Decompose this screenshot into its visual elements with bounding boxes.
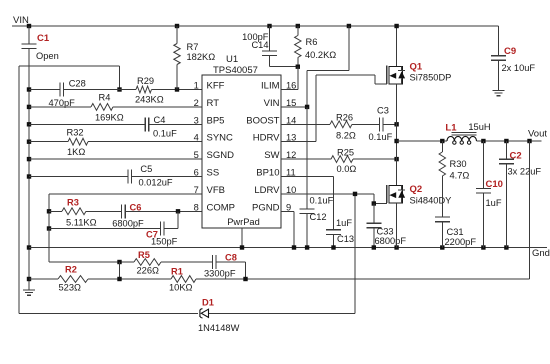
- svg-text:C1: C1: [37, 33, 50, 44]
- junction C2 on output row: [504, 139, 508, 143]
- junction SW to output row: [394, 139, 398, 143]
- resistor R2: [58, 276, 88, 283]
- capacitor C10: [482, 141, 484, 188]
- resistor R26: [330, 121, 352, 128]
- svg-text:BP10: BP10: [256, 168, 279, 179]
- wire left signal-ground bus: [28, 90, 30, 290]
- junction C2 rail: [504, 245, 508, 249]
- resistor R1: [171, 276, 196, 283]
- wire FB node vertical: [48, 194, 50, 262]
- svg-text:6800pF: 6800pF: [375, 236, 407, 246]
- svg-text:40.2KΩ: 40.2KΩ: [305, 50, 336, 60]
- wire SS row pin 6: [29, 176, 128, 178]
- svg-text:8.2Ω: 8.2Ω: [336, 131, 356, 141]
- wire feedback drop to R1 row: [529, 141, 531, 279]
- svg-text:0.1uF: 0.1uF: [153, 129, 177, 139]
- wire D1 to LDRV riser: [354, 194, 356, 313]
- svg-text:3x 22uF: 3x 22uF: [508, 167, 542, 177]
- resistor R30 snubber: [441, 141, 443, 152]
- svg-text:2200pF: 2200pF: [445, 237, 477, 247]
- svg-text:C33: C33: [377, 227, 394, 237]
- svg-text:R25: R25: [337, 148, 354, 158]
- svg-text:5.11KΩ: 5.11KΩ: [66, 218, 97, 228]
- wire Q2 source to rail: [396, 203, 398, 247]
- svg-text:D1: D1: [202, 298, 214, 308]
- junction R29/R7 at KFF: [175, 87, 179, 91]
- junction C33 hang point: [372, 201, 376, 205]
- svg-text:3300pF: 3300pF: [204, 269, 236, 279]
- svg-text:LDRV: LDRV: [254, 185, 280, 196]
- svg-text:10KΩ: 10KΩ: [169, 283, 193, 293]
- svg-text:0.012uF: 0.012uF: [139, 178, 173, 188]
- wire VIN feed to pin 15: [348, 26, 350, 70]
- svg-text:R7: R7: [187, 42, 199, 52]
- svg-text:Q2: Q2: [410, 184, 423, 195]
- svg-text:150pF: 150pF: [151, 237, 178, 247]
- resistor R3: [62, 208, 86, 215]
- wire PwrPad to ground rail: [241, 228, 243, 247]
- svg-text:BP5: BP5: [207, 115, 225, 126]
- wire KFF row pin 1: [29, 89, 60, 91]
- Q2 body diode: [398, 191, 405, 198]
- junction R25 to SW column: [394, 157, 398, 161]
- svg-text:PGND: PGND: [252, 202, 280, 213]
- junction C31 rail: [440, 245, 444, 249]
- junction Vout feedback tap: [527, 139, 531, 143]
- svg-text:R4: R4: [99, 93, 111, 103]
- ground symbol bottom-left: [23, 289, 35, 291]
- svg-text:169KΩ: 169KΩ: [95, 113, 124, 123]
- wire SGND row pin 5: [29, 158, 202, 160]
- wire C14 to ILIM: [270, 66, 298, 68]
- wire ILIM to pin 16: [297, 67, 299, 90]
- wire SW row pin 12: [281, 158, 331, 160]
- junction C3 to SW column: [394, 122, 398, 126]
- svg-text:R29: R29: [137, 76, 154, 86]
- svg-text:226Ω: 226Ω: [137, 266, 160, 276]
- junction bus row6: [27, 174, 31, 178]
- junction R5 row mid: [117, 260, 121, 264]
- svg-text:KFF: KFF: [207, 81, 225, 92]
- wire PGND pin 9 to rail: [281, 210, 294, 212]
- capacitor C6: [121, 204, 123, 218]
- junction bus row3: [27, 122, 31, 126]
- capacitor C31: [435, 216, 450, 218]
- junction R30 on output row: [440, 139, 444, 143]
- svg-text:1: 1: [194, 81, 199, 91]
- svg-text:C3: C3: [377, 106, 389, 116]
- svg-text:6800pF: 6800pF: [112, 219, 144, 229]
- svg-text:ILIM: ILIM: [261, 81, 280, 92]
- wire power ground rail: [29, 247, 547, 249]
- resistor R29: [136, 86, 152, 93]
- Q1 channel arrow: [389, 73, 396, 79]
- svg-text:C31: C31: [447, 227, 464, 237]
- inductor L1: [447, 136, 476, 141]
- junction LDRV D1 riser: [353, 192, 357, 196]
- svg-text:7: 7: [194, 185, 199, 195]
- junction divider: [117, 277, 121, 281]
- resistor R32: [68, 138, 88, 145]
- capacitor C2: [505, 141, 507, 159]
- capacitor C28: [59, 83, 61, 97]
- wire VIN top rail: [12, 25, 499, 27]
- svg-text:2x 10uF: 2x 10uF: [502, 63, 536, 73]
- capacitor C13: [333, 177, 335, 230]
- transistor Q1 body: [389, 66, 402, 84]
- junction C10 rail: [481, 245, 485, 249]
- svg-text:R5: R5: [138, 250, 150, 260]
- svg-text:R26: R26: [336, 113, 353, 123]
- capacitor C1: [28, 26, 30, 44]
- svg-text:TPS40057: TPS40057: [213, 65, 258, 76]
- capacitor C3: [378, 117, 380, 131]
- svg-text:HDRV: HDRV: [253, 133, 280, 144]
- junction PwrPad rail: [240, 245, 244, 249]
- svg-text:Si4840DY: Si4840DY: [410, 196, 452, 206]
- svg-text:0.0Ω: 0.0Ω: [337, 164, 357, 174]
- svg-text:5: 5: [194, 150, 199, 160]
- wire RT row pin 2: [29, 106, 91, 108]
- svg-text:C13: C13: [337, 234, 354, 244]
- svg-text:1KΩ: 1KΩ: [67, 147, 85, 157]
- svg-text:C5: C5: [140, 164, 152, 174]
- svg-text:COMP: COMP: [207, 202, 236, 213]
- junction Q2 source rail: [394, 245, 398, 249]
- wire output row SW to Vout: [397, 140, 447, 142]
- svg-text:3: 3: [194, 115, 199, 125]
- svg-text:523Ω: 523Ω: [59, 283, 82, 293]
- svg-text:VFB: VFB: [207, 185, 225, 196]
- wire BP5 row pin 3: [29, 123, 145, 125]
- junction C12 rail: [305, 245, 309, 249]
- svg-text:Open: Open: [36, 51, 59, 61]
- svg-text:C10: C10: [486, 179, 503, 190]
- wire BOOST row pin 14: [281, 123, 330, 125]
- svg-text:0.1uF: 0.1uF: [369, 132, 393, 142]
- svg-text:C14: C14: [251, 40, 268, 50]
- wire C7 branch: [49, 228, 160, 230]
- svg-text:C2: C2: [510, 151, 522, 162]
- svg-text:L1: L1: [445, 122, 457, 133]
- svg-text:C4: C4: [154, 115, 166, 125]
- svg-text:SS: SS: [207, 168, 220, 179]
- capacitor C7: [159, 222, 161, 236]
- wire R5 row: [48, 229, 50, 263]
- svg-text:4: 4: [194, 133, 199, 143]
- svg-text:BOOST: BOOST: [246, 115, 279, 126]
- junction bus gnd rail: [27, 245, 31, 249]
- ground symbol under C9: [493, 90, 505, 92]
- svg-text:0.1uF: 0.1uF: [310, 196, 334, 206]
- svg-text:U1: U1: [226, 54, 238, 65]
- svg-text:RT: RT: [207, 98, 220, 109]
- svg-text:182KΩ: 182KΩ: [187, 52, 216, 62]
- svg-text:C8: C8: [225, 253, 237, 263]
- wire SW column: [396, 84, 398, 186]
- Q2 channel arrow: [389, 192, 396, 198]
- svg-text:C6: C6: [130, 203, 142, 213]
- wire LDRV step to Q2 gate: [373, 194, 375, 204]
- junction C1 on VIN rail: [27, 24, 31, 28]
- junction C14 on VIN rail: [267, 24, 271, 28]
- diode D1: [201, 309, 208, 317]
- svg-text:VIN: VIN: [13, 15, 29, 26]
- svg-text:C12: C12: [310, 212, 327, 222]
- svg-text:243KΩ: 243KΩ: [135, 95, 164, 105]
- junction R7 on VIN rail: [175, 24, 179, 28]
- Q1 gate bar: [386, 66, 388, 84]
- svg-text:2: 2: [194, 98, 199, 108]
- resistor R4: [91, 104, 113, 111]
- junction bus row1: [27, 87, 31, 91]
- junction C10 on output row: [481, 139, 485, 143]
- transistor Q2 body: [389, 186, 402, 204]
- capacitor C9 with ground: [498, 26, 500, 56]
- junction VIN pin node: [305, 105, 309, 109]
- resistor R6: [297, 26, 299, 36]
- svg-text:SGND: SGND: [207, 150, 235, 161]
- svg-text:1uF: 1uF: [336, 218, 352, 228]
- wire BP10 row pin 11: [281, 176, 334, 178]
- svg-text:4.7Ω: 4.7Ω: [450, 171, 470, 181]
- junction Q1 drain on rail: [394, 24, 398, 28]
- resistor R25: [331, 156, 353, 163]
- junction VIN feed on rail: [347, 24, 351, 28]
- svg-text:1uF: 1uF: [486, 198, 502, 208]
- junction FB C7 branch: [47, 226, 51, 230]
- wire outer loop drop to KFF: [119, 66, 121, 90]
- svg-text:1N4148W: 1N4148W: [198, 323, 240, 333]
- junction FB R3 branch: [47, 209, 51, 213]
- junction C33 rail: [372, 245, 376, 249]
- wire VFB row pin 7: [49, 193, 202, 195]
- svg-text:R6: R6: [306, 37, 318, 47]
- op-amp U1 TPS40057 controller box: [202, 75, 281, 228]
- svg-text:C28: C28: [69, 79, 86, 89]
- capacitor C14: [269, 26, 271, 51]
- svg-text:R2: R2: [65, 265, 77, 275]
- wire outer loop top: [19, 65, 120, 67]
- wire divider link: [119, 262, 121, 279]
- svg-text:R30: R30: [450, 159, 467, 169]
- junction C13 rail: [331, 245, 335, 249]
- svg-text:6: 6: [194, 168, 199, 178]
- junction bus row4: [27, 140, 31, 144]
- junction PGND rail: [292, 245, 296, 249]
- junction C8 to R1 row: [243, 277, 247, 281]
- transistor Q1 drain wire: [396, 26, 398, 66]
- svg-text:SW: SW: [264, 150, 279, 161]
- junction bus R2 row: [27, 277, 31, 281]
- svg-text:SYNC: SYNC: [207, 133, 234, 144]
- svg-text:Q1: Q1: [410, 62, 423, 73]
- wire COMP row pin 8: [49, 210, 62, 212]
- svg-text:Gnd: Gnd: [532, 248, 550, 259]
- junction bus row2: [27, 105, 31, 109]
- Q1 body diode: [398, 71, 405, 78]
- svg-text:VIN: VIN: [264, 98, 280, 109]
- junction bus row5: [27, 157, 31, 161]
- junction ILIM node: [296, 65, 300, 69]
- wire SYNC row pin 4: [29, 141, 68, 143]
- svg-text:8: 8: [194, 202, 199, 212]
- svg-text:R3: R3: [67, 198, 79, 208]
- svg-text:15uH: 15uH: [468, 122, 490, 132]
- capacitor C4: [144, 117, 146, 131]
- junction COMP C7 rejoin: [176, 209, 180, 213]
- capacitor C33: [373, 204, 375, 224]
- wire LDRV row pin 10: [281, 193, 374, 195]
- svg-text:Si7850DP: Si7850DP: [410, 73, 452, 83]
- wire D1 row: [19, 312, 198, 314]
- wire HDRV to Q1 gate: [281, 141, 316, 143]
- resistor R7: [176, 26, 178, 44]
- capacitor C5: [127, 170, 129, 184]
- svg-text:R32: R32: [67, 128, 84, 138]
- resistor R5: [134, 259, 161, 266]
- wire R2 R1 row: [29, 278, 58, 280]
- svg-text:Vout: Vout: [528, 129, 547, 140]
- junction KFF C28/R29: [117, 87, 121, 91]
- junction R6 on VIN rail: [296, 24, 300, 28]
- Q2 gate bar: [386, 185, 388, 203]
- svg-text:R1: R1: [171, 267, 183, 277]
- svg-text:C9: C9: [504, 46, 516, 57]
- capacitor C8: [212, 255, 214, 269]
- svg-text:PwrPad: PwrPad: [227, 217, 260, 227]
- L1 core lines: [452, 131, 477, 133]
- capacitor C12: [306, 107, 308, 209]
